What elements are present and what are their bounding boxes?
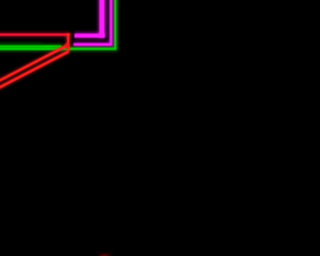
- wire: outer magenta corner (vertical at x=111 turning left at y=44.4): [74, 0, 112, 44]
- wire: red horizontal trace y=34.6: [0, 32, 70, 36]
- wire: inner magenta horizontal at y=35.6: [75, 32, 105, 38]
- pad: dim red via at bottom edge: [97, 252, 112, 256]
- wire: inner magenta vertical at x=101.9: [98, 0, 106, 38]
- junction: red trace joint blob: [65, 43, 70, 48]
- wire: red vertical trace at x=68.2: [66, 34, 71, 52]
- wire: faint green stub y=43.6: [0, 43, 42, 45]
- wire: green outline corner (vertical at x=115 turning left at y=48.8): [0, 0, 115, 49]
- wire: upper green horizontal segment y=46.4: [0, 44, 62, 48]
- wire: red diagonal airwire A (upper): [0, 46, 67, 82]
- wire: red diagonal airwire B (lower): [0, 52, 69, 89]
